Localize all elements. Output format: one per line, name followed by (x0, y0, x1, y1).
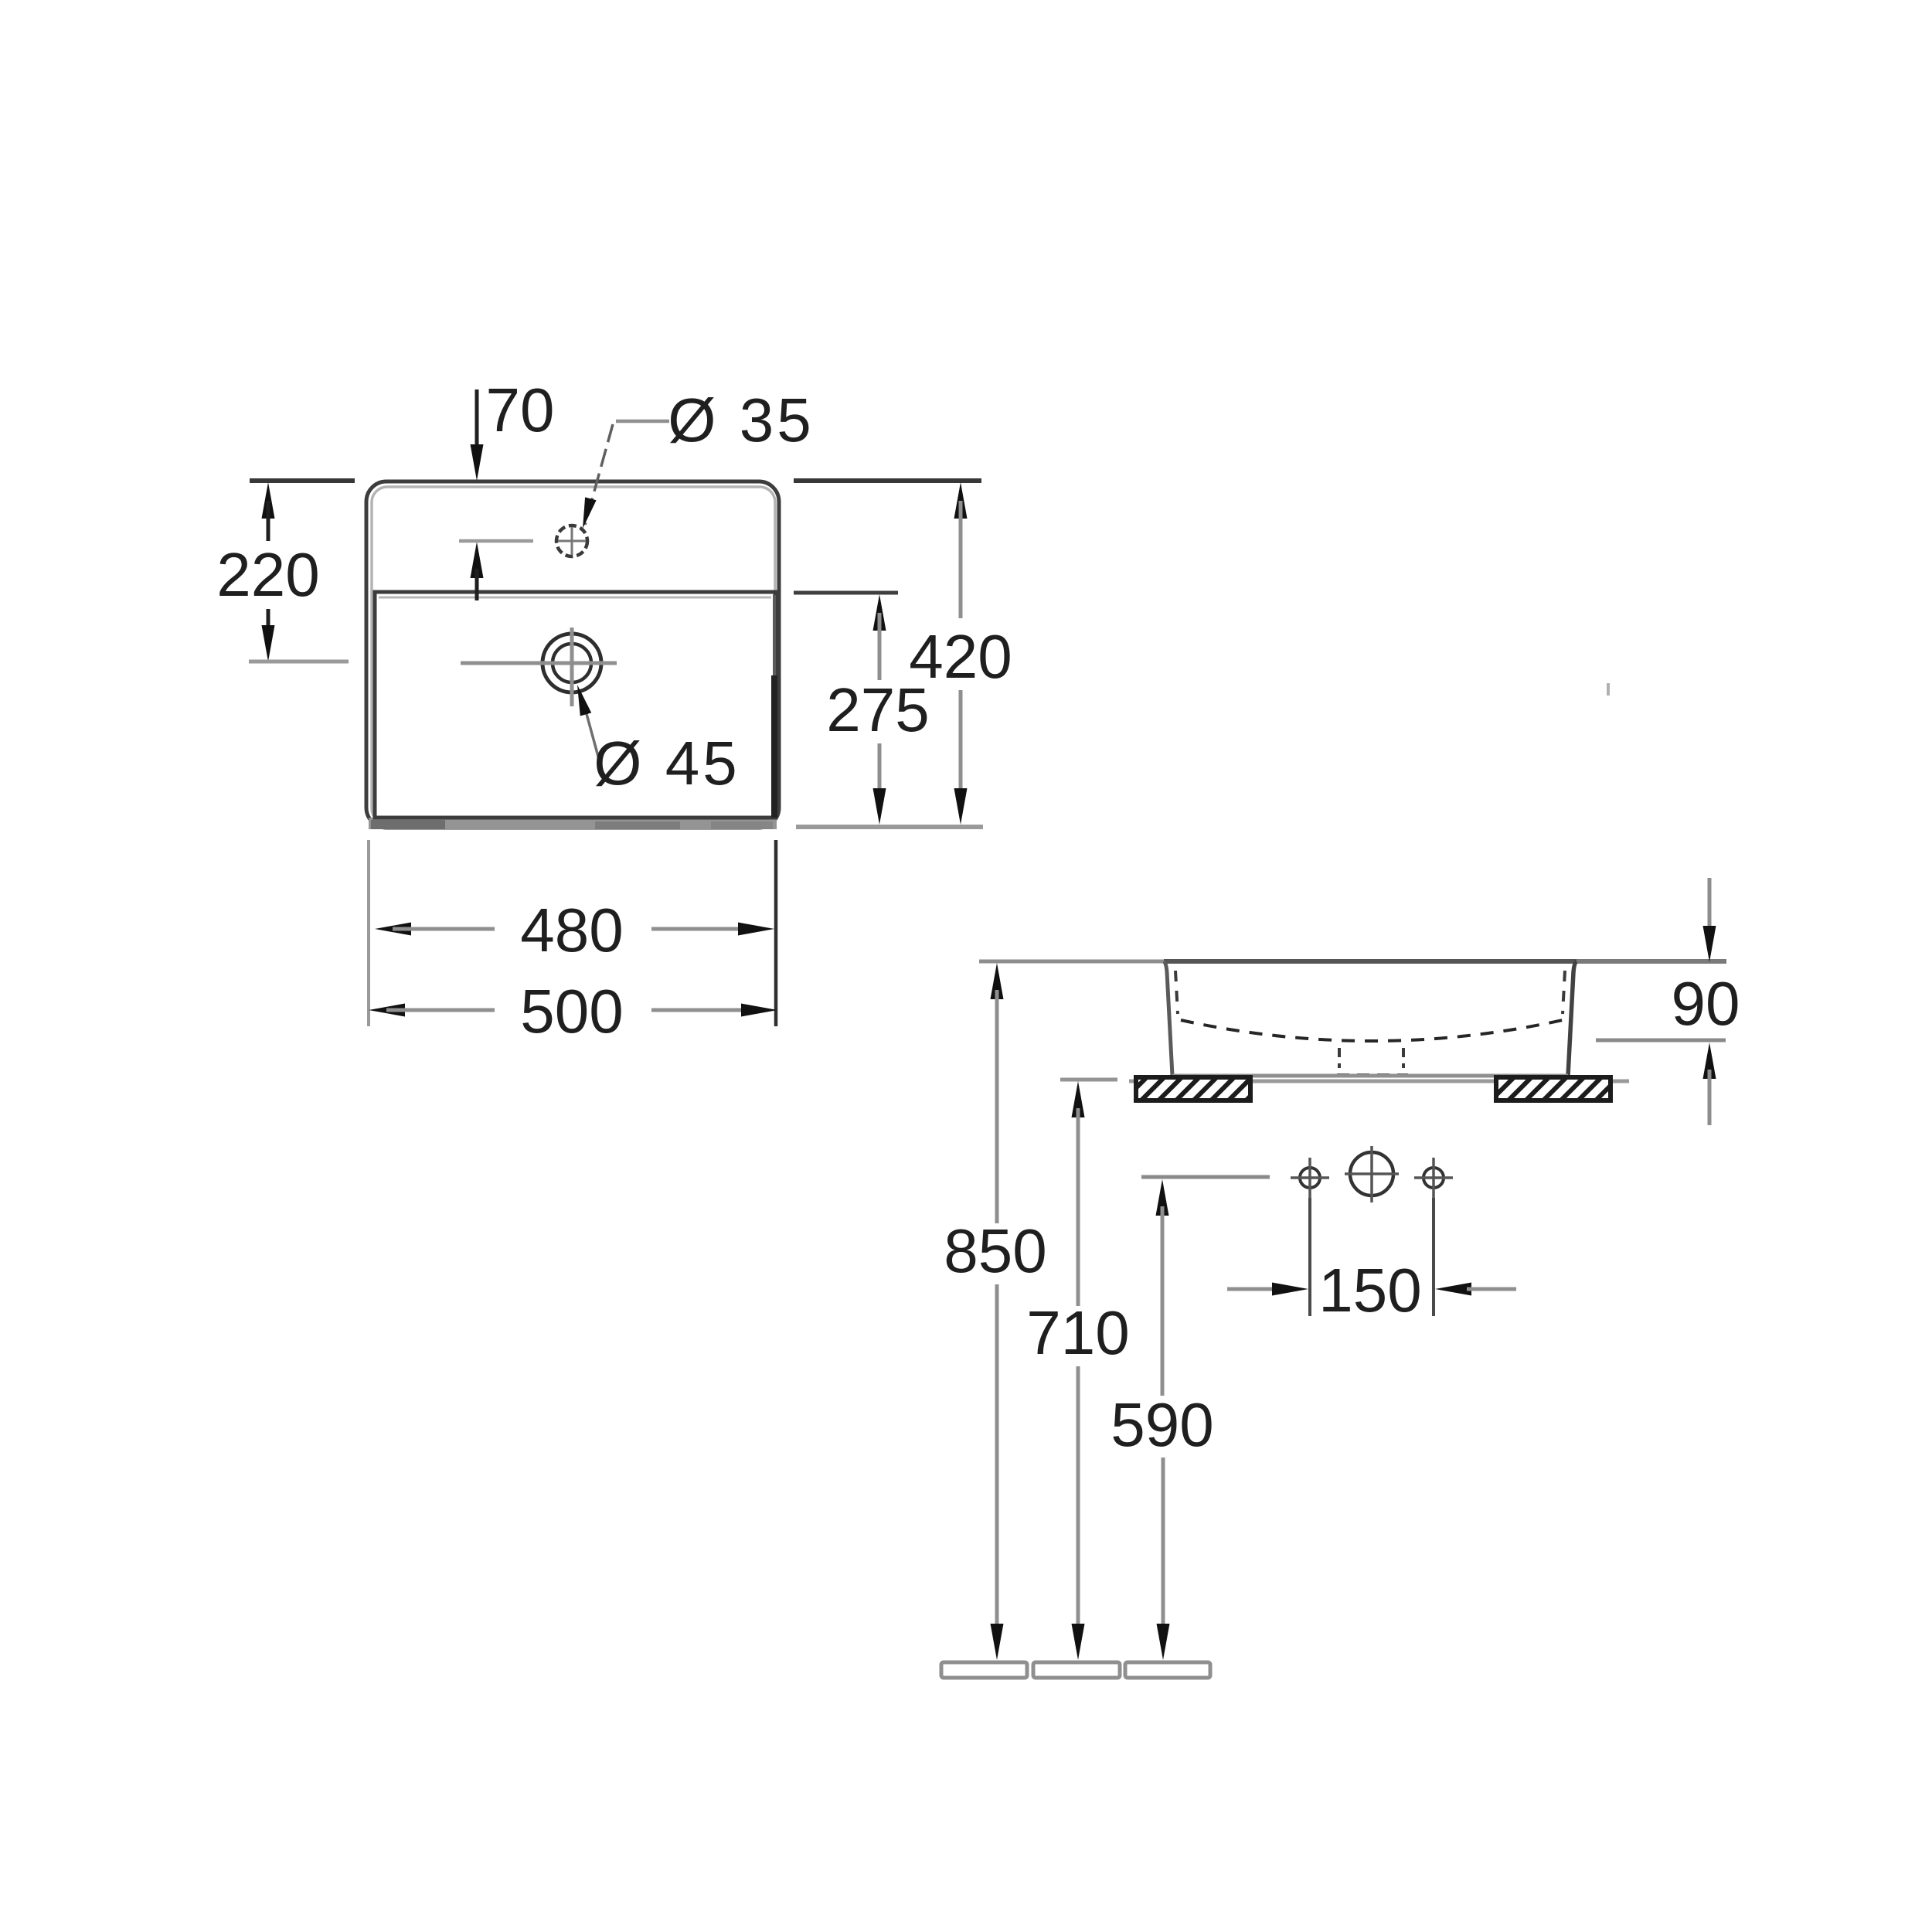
wall fitting hole left (small) (1300, 1168, 1320, 1188)
dimension 150 extension line right (1432, 1198, 1435, 1316)
basin outer rim (rounded rect) (366, 481, 779, 828)
dimension 500 (369, 1004, 405, 1017)
leader line for Ø 35 label (616, 420, 669, 423)
faucet hole center mark (571, 527, 573, 555)
dimension 420 (right) (954, 482, 968, 519)
basin elevation top edge (1164, 959, 1577, 964)
inner bowl rim rectangle (375, 592, 775, 818)
top edge extension line left (250, 478, 355, 483)
dimension 90 lower arrow (1703, 1043, 1716, 1079)
dimension 90 lower extension line (1596, 1039, 1726, 1043)
dimension 220 (left) (262, 482, 275, 519)
svg-text:480: 480 (520, 896, 623, 964)
rim top extension line left (850 datum) (979, 960, 1164, 964)
svg-text:220: 220 (216, 540, 319, 609)
floor reference bar 2 (1033, 1662, 1120, 1678)
dimension 220 lower extension line (drain centerline) (249, 660, 349, 664)
svg-text:90: 90 (1672, 969, 1740, 1038)
dimension 710 (1072, 1081, 1085, 1117)
inner bowl right edge lower dark segment (771, 675, 777, 818)
inner bowl rim gray shadow top (379, 597, 771, 599)
wall fitting hole center (large) (1350, 1152, 1393, 1196)
drain centerline horizontal (461, 662, 617, 665)
bottom extension line right of plan (796, 825, 983, 829)
basin elevation bottom edge (1172, 1074, 1568, 1078)
drain centerline vertical (570, 628, 574, 706)
svg-text:Ø 35: Ø 35 (668, 386, 814, 454)
floor reference bar 1 (941, 1662, 1027, 1678)
width dims extension line right (774, 840, 778, 1026)
countertop hatched section left (1136, 1077, 1250, 1100)
dimension 150 extension line left (1308, 1198, 1311, 1316)
dimension 590 extension line (hole centerline) (1141, 1175, 1270, 1179)
basin bottom darker segments (371, 820, 445, 829)
dimension 70 lower extension line (faucet centerline) (459, 539, 533, 543)
wall fitting hole right (small) (1423, 1168, 1444, 1188)
svg-text:710: 710 (1026, 1298, 1129, 1367)
faucet hole Ø35 circle (556, 526, 587, 556)
basin bottom thick gray band (369, 818, 777, 829)
svg-text:850: 850 (944, 1216, 1046, 1285)
dimension 275 (873, 594, 886, 631)
basin elevation left side (1164, 961, 1172, 1076)
dimension 850 (991, 963, 1004, 999)
svg-text:275: 275 (826, 675, 929, 744)
basin elevation right side (1568, 961, 1577, 1076)
dimension 150 (1227, 1287, 1277, 1291)
dimension 90 upper arrow (1708, 878, 1712, 927)
basin hidden bowl bottom (dashed curve) (1181, 1020, 1563, 1041)
basin hidden inner wall left (dashed) (1175, 971, 1178, 1014)
dimension 590 (1156, 1179, 1169, 1216)
dimension 710 extension line (counter level) (1060, 1078, 1117, 1082)
width dims extension line left (367, 840, 370, 1026)
svg-text:150: 150 (1318, 1256, 1421, 1325)
floor reference bar 3 (1125, 1662, 1210, 1678)
svg-text:590: 590 (1111, 1390, 1213, 1459)
countertop surface line (1129, 1080, 1629, 1083)
countertop hatched section right (1496, 1077, 1611, 1100)
leader line for Ø 45 label (582, 697, 600, 762)
drain hole inner circle (553, 644, 591, 682)
svg-text:70: 70 (486, 376, 555, 444)
hidden drain outline dashes (1338, 1048, 1341, 1068)
top edge extension line right (794, 478, 981, 483)
dimension 480 (375, 923, 411, 936)
svg-text:500: 500 (520, 977, 623, 1046)
inner bowl right edge dark (773, 595, 776, 680)
rim top extension line right (90 datum) (1577, 959, 1726, 964)
drain hole Ø45 outer circle (543, 634, 601, 692)
dimension 275 extension line (inner rim top) (794, 591, 898, 595)
dimension 70 (top) (475, 389, 479, 454)
basin outer rim inner gray shadow (372, 487, 775, 824)
stray tick (1607, 683, 1610, 696)
basin hidden inner wall right (dashed) (1563, 971, 1565, 1014)
svg-text:Ø 45: Ø 45 (594, 729, 740, 798)
